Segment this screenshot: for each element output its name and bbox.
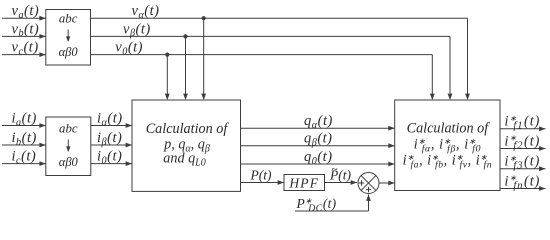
wire P(t) from middle block to HPF: [241, 180, 285, 185]
wire q_beta to right block: [241, 143, 395, 148]
svg-text:v0(t): v0(t): [115, 40, 143, 58]
label v_c(t): [12, 40, 39, 58]
wire v_beta vertical into right block: [448, 36, 453, 100]
svg-text:abc: abc: [59, 12, 78, 26]
wire i*_f2 output: [500, 146, 546, 151]
wire v_0 vertical into right block: [430, 55, 435, 100]
label i_beta(t): [97, 130, 122, 148]
wire v_alpha tap down into middle block: [201, 18, 206, 100]
svg-text:q0(t): q0(t): [304, 149, 333, 167]
block calculation of p q_alpha q_beta and q_L0: [132, 100, 241, 191]
summing junction: [358, 173, 379, 194]
wire v_a input: [2, 16, 46, 21]
svg-text:va(t): va(t): [12, 3, 40, 21]
svg-text:HPF: HPF: [288, 175, 319, 190]
wire v_beta tap down into middle block: [183, 36, 188, 100]
svg-text:vβ(t): vβ(t): [123, 21, 151, 39]
svg-text:iα(t): iα(t): [97, 111, 123, 129]
block abc-to-alphabeta0 current transform: [46, 117, 91, 176]
wire q_0 to right block: [241, 162, 395, 167]
label P*_DC(t): [296, 196, 337, 214]
wire P*_DC reference: [295, 195, 371, 212]
wire i_c input: [2, 161, 46, 166]
label v_alpha(t): [132, 3, 160, 21]
node v_0 tap junction: [165, 53, 169, 57]
wire v_beta from transform to corner: [91, 35, 451, 37]
wire i*_f3 output: [500, 166, 546, 171]
block abc-to-alphabeta0 voltage transform: [46, 10, 91, 66]
svg-text:αβ0: αβ0: [59, 155, 79, 169]
wire i_0 to middle block: [91, 161, 132, 166]
svg-text:qβ(t): qβ(t): [304, 131, 333, 149]
svg-text:vb(t): vb(t): [12, 21, 40, 39]
svg-text:P(t): P(t): [250, 167, 272, 182]
wire summing junction output to right block: [379, 181, 395, 186]
svg-text:Calculation of: Calculation of: [146, 121, 230, 137]
wire v_c input: [2, 52, 46, 57]
wire P-tilde from HPF to summing junction: [325, 180, 358, 185]
svg-text:~: ~: [332, 163, 338, 175]
wire i*_fn output: [500, 186, 546, 191]
label v_beta(t): [123, 21, 151, 39]
label i_a(t): [12, 111, 37, 129]
svg-text:abc: abc: [59, 122, 78, 136]
block HPF high-pass filter: [284, 175, 325, 191]
label i*_fn(t): [505, 173, 541, 191]
label i*_f2(t): [505, 133, 541, 151]
svg-text:vc(t): vc(t): [12, 40, 39, 58]
svg-text:iβ(t): iβ(t): [97, 130, 122, 148]
label i*_f3(t): [505, 154, 541, 172]
wire q_alpha to right block: [241, 126, 395, 131]
wire i_a input: [2, 123, 46, 128]
svg-text:Calculation of: Calculation of: [407, 121, 491, 137]
label i_alpha(t): [97, 111, 123, 129]
wire i_alpha to middle block: [91, 123, 132, 128]
label P(t): [250, 167, 272, 182]
svg-text:qα(t): qα(t): [304, 113, 333, 131]
label v_a(t): [12, 3, 40, 21]
label v_b(t): [12, 21, 40, 39]
svg-text:i0(t): i0(t): [97, 149, 122, 167]
svg-text:ib(t): ib(t): [12, 130, 37, 148]
wire v_alpha vertical into right block: [465, 18, 470, 100]
label v_0(t): [115, 40, 143, 58]
wire v_0 from transform to corner: [91, 54, 433, 56]
wire v_alpha from transform to corner: [91, 17, 468, 19]
wire v_b input: [2, 34, 46, 39]
label P-tilde(t): [329, 163, 351, 182]
node v_alpha tap junction: [202, 16, 206, 20]
svg-text:ia(t): ia(t): [12, 111, 37, 129]
label i*_f1(t): [505, 114, 541, 132]
label q_0(t): [304, 149, 333, 167]
label i_0(t): [97, 149, 122, 167]
wire i_beta to middle block: [91, 143, 132, 148]
wire v_0 tap down into middle block: [165, 55, 170, 100]
label i_c(t): [12, 149, 37, 167]
svg-text:ic(t): ic(t): [12, 149, 37, 167]
node v_beta tap junction: [183, 34, 187, 38]
svg-text:vα(t): vα(t): [132, 3, 160, 21]
wire i*_f1 output: [500, 126, 546, 131]
label i_b(t): [12, 130, 37, 148]
wire i_b input: [2, 143, 46, 148]
label q_beta(t): [304, 131, 333, 149]
svg-text:αβ0: αβ0: [59, 45, 79, 59]
block calculation of compensation currents: [395, 100, 500, 191]
label q_alpha(t): [304, 113, 333, 131]
